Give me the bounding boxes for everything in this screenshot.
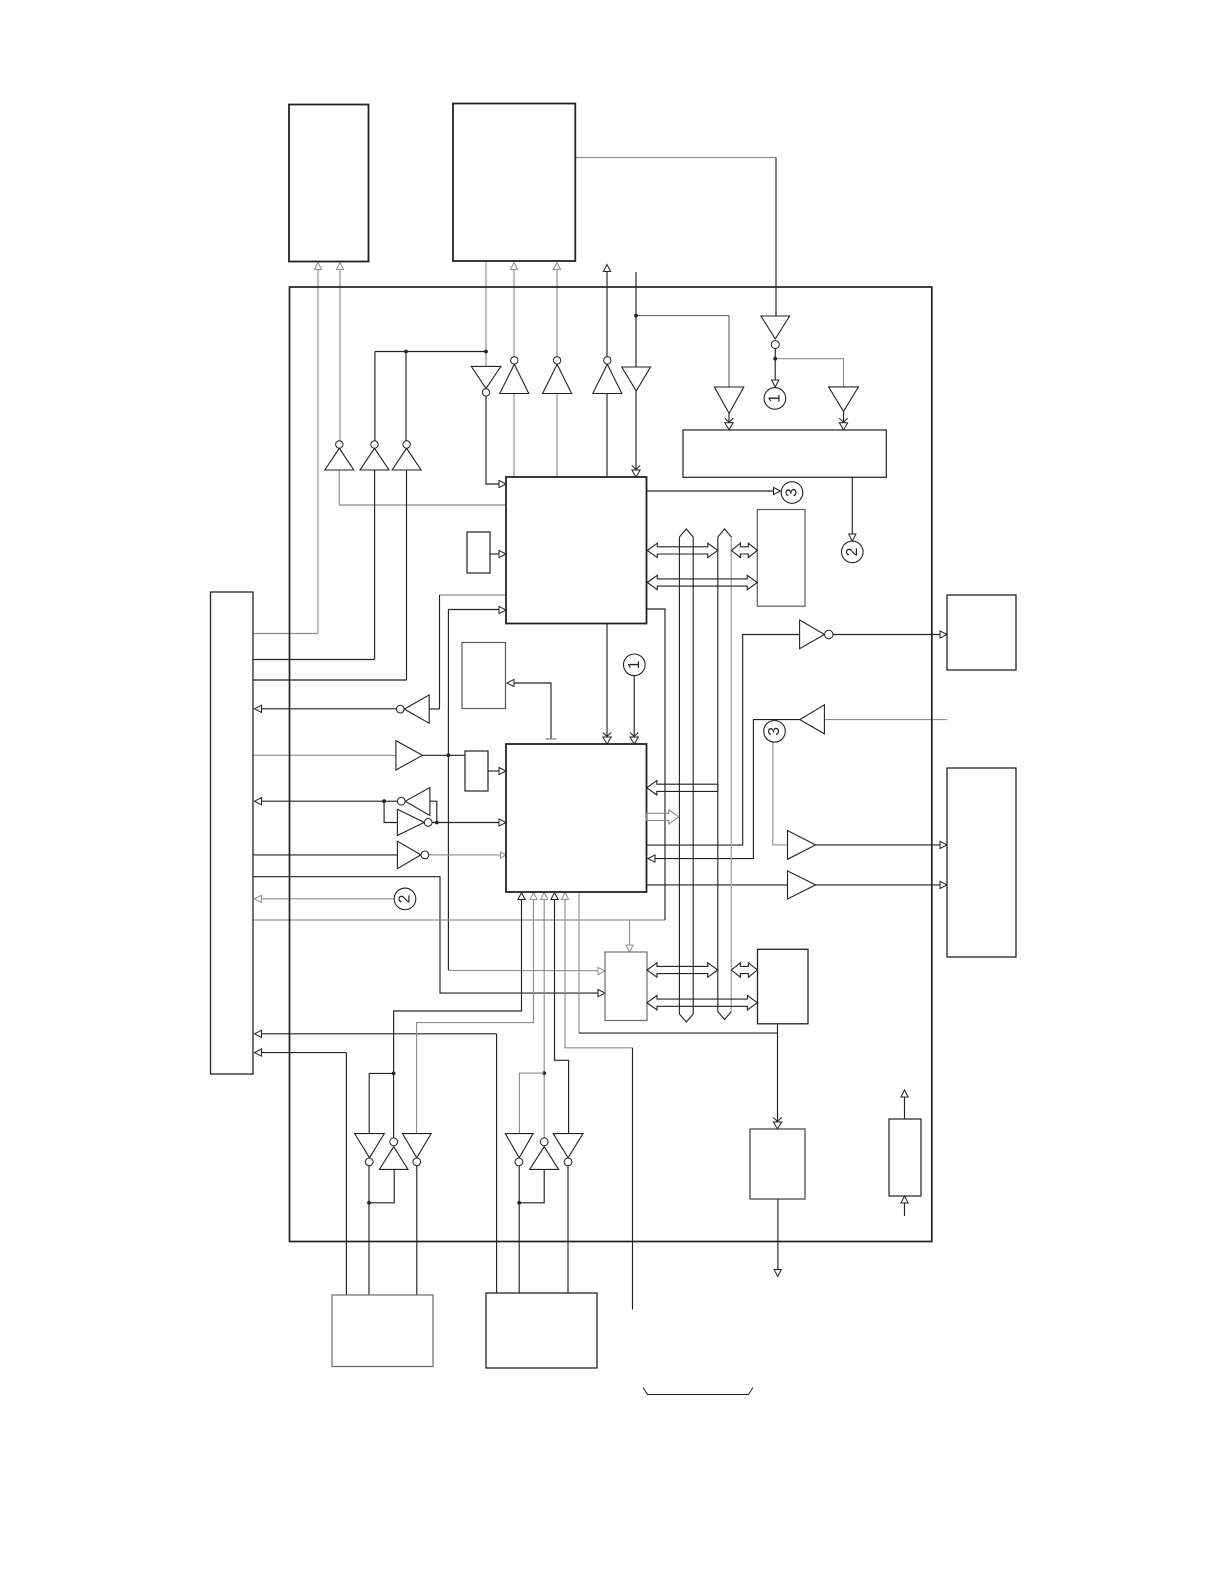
wire inverter U7 output to box1 pin [486,396,500,484]
svg-text:3: 3 [766,727,783,736]
wire box F bottom out of border [777,1199,779,1270]
wire net B to box D pin y971 [448,969,597,971]
T-bar terminal above box2 [546,738,557,740]
junction dot at 775/358 [773,357,777,361]
node ref circled 1 (top) [764,388,786,410]
node ref circled 1 (middle) [624,654,646,676]
triangle TL (pointing left) [800,705,825,734]
arrow up into box2 pin x565 [561,893,568,900]
wire inverter R2 output to box2 [429,854,501,856]
wire net y351 horizontal [375,351,486,353]
bus arrow H4 box D to V2 [647,963,718,977]
double arrow into box1 top [632,470,640,477]
wire inverter U3 output to box A pin2 [339,269,341,441]
bus arrow H5 box D to box E [647,996,757,1010]
arrow into box D pin y993 [598,990,605,997]
node ref circled 3 (top) [781,482,803,504]
box L (right outside) [947,768,1016,957]
inverter R1 (pointing right) [397,809,424,835]
wire node 636 junction to triangle U12 input [636,315,729,317]
arrow into box A pin2 [336,263,343,270]
arrow into box1 pin y554 [499,550,506,557]
wire long box output down [851,477,853,534]
wire box1 to inverter U10 [606,394,608,478]
wire down to inverter U6 input [775,158,777,317]
wire junction to triangle U13 input [775,359,843,387]
wire box1 to inverter U8 [513,394,515,478]
double arrow into box F top [773,1122,781,1129]
bus arrow H6 V2 to box E [731,963,757,977]
box C [757,510,805,607]
junction dot at 544/1073 [542,1071,546,1075]
junction dot at 448/755 [447,753,451,757]
arrow up into box2 pin x554 [551,893,558,900]
wire vertical net B x448 [447,610,449,971]
inverter U8 (bubble top) [500,364,529,393]
wire triangle TL apex to box2 pin y858 [654,720,800,859]
wire circled 1b to box2 top [633,676,635,737]
wire y351 down to inverter U4 bubble [374,352,376,441]
triangle U13 (pointing down) [829,387,859,412]
svg-text:2: 2 [397,895,414,904]
bus arrow H3 box1 to box C [647,575,757,589]
wire box1 pin y609 to net x665 [647,609,665,920]
box D [605,952,647,1021]
wire net B to box1 pin y610 [448,609,499,611]
arrow into connector row1034 [255,1030,262,1037]
double arrow into long box right pin [839,423,847,430]
wire box1 to inverter U9 [556,394,558,478]
wire drop to box D top [629,920,631,946]
wire row1034 to box J [261,1033,497,1035]
arrow into box K pin [940,631,947,638]
junction dot at 384/801 [382,799,386,803]
buffer A (to box L pin1) [788,831,816,860]
arrow into box D top [626,945,633,952]
wire box2 pin x533 to inverter Gc input [417,899,534,1134]
arrow into box B pin2 [553,263,560,270]
wire inverter Gf output to box J [567,1166,569,1293]
wire open net x632 down past border [632,1048,634,1310]
wire node at x636 down to triangle U11 [635,272,637,367]
wire buffer A output to box L pin1 [816,844,940,846]
inverter U9 (bubble top) [543,364,572,393]
cable bracket at bottom [643,1388,753,1395]
wire inverter Gd output to box J [518,1166,520,1293]
wire branch to inverter Ga input [369,1073,393,1133]
arrow up into box2 pin x521 [518,893,525,900]
node ref circled 2 (top) [842,541,864,563]
arrow into box M right edge [507,679,514,686]
arrow into box1 pin y610 [499,606,506,613]
svg-text:2: 2 [844,548,861,557]
wire inverter L1 output to connector [261,708,396,710]
bus arrow B2 box2 to V1 [647,810,679,824]
inverter K (to box K) [800,620,825,649]
arrow into box A pin1 [314,263,321,270]
wire small box S2 to box2 pin y771 [488,770,500,772]
inverter Gc (pointing down) [403,1134,432,1158]
wire small box S1 to box1 [490,553,500,555]
wire box2 pin x554 to inverter Gf input [555,899,569,1134]
junction dot at 519/1202 [517,1201,521,1205]
arrow into box2 right pin y858 [648,855,655,862]
inverter Gd (pointing down) [505,1134,533,1158]
triangle U11 (pointing down) [622,367,651,391]
arrow into connector row708 [255,705,262,712]
node ref circled 2 (left) [394,888,416,910]
arrow into circled 2 [849,534,856,541]
bus arrow B1 into box2 right [647,781,718,795]
wire branch to inverter Gd input [519,1073,544,1134]
arrow into box D pin y971 [598,967,605,974]
wire junction to inverter R1 input [384,801,397,822]
buffer Bf (to box L pin2) [788,871,816,899]
wire box1 bottom to box2 top [606,624,608,737]
wire buffer Bf output to box L pin2 [816,884,940,886]
inverter Ga (pointing down) [355,1134,385,1158]
wire row877 to box D pin y993 [253,877,598,993]
inverter Gb (bubble top, up) [379,1147,408,1170]
arrow into box2 pin y771 [499,767,506,774]
double arrow into box2 top pin2 [630,737,638,744]
wire inverter K output to box K [833,634,940,636]
inverter U10 (bubble top) [593,364,622,393]
wire row898 to circled 2b [261,898,394,900]
wire inverter U10 output up [606,272,608,357]
small arrow into box2 pin y855 [501,852,507,858]
wire box2 pin x579 to box F [578,892,580,1033]
vertical bus V2 [718,529,732,1020]
wire circled 3b down to buffer A input [773,743,788,845]
box I (bottom left) [332,1295,433,1367]
node ref circled 3 (middle) [764,721,786,743]
inverter R2 (pointing right) [397,841,421,869]
wire row920 connector to net x665 [253,919,665,921]
inverter U5 (bubble top) [392,448,421,470]
box2 (lower large block) [506,744,647,892]
wire box2 pin x565 to open net x632 [565,899,633,1048]
wire row855 to inverter R2 input [253,854,397,856]
bus arrow H2 V2 to box C [731,543,757,557]
arrow into box L pin1 [940,841,947,848]
junction dot at 393/1073 [392,1072,396,1076]
triangle U12 (pointing down) [714,387,743,413]
wire row659 to inverter U4 input [253,659,375,661]
inverter U7 (pointing down) [471,366,501,388]
wire row755 to buffer B1 input [253,754,396,756]
wire box1 pin y595 to inverter L1 base [440,594,507,596]
box B (top) [453,104,575,262]
box E [758,949,809,1024]
wire inverter U8 output to box B [513,269,515,357]
wire inverter Ga output to box I [368,1166,370,1295]
svg-text:3: 3 [784,488,801,497]
wire row1052 to box I [261,1052,346,1054]
arrow into box L pin2 [940,881,947,888]
arrow into connector row1052 [255,1049,262,1056]
inverter Ge (bubble top, up) [530,1147,559,1170]
wire U12 apex to long box [728,413,730,422]
wire triangle U11 apex to box1 top [635,391,637,470]
box G [889,1119,921,1196]
small box S2 [465,751,488,791]
junction dot at 436/822 [435,821,439,825]
wire box2 pin x521 to group1 net [394,899,522,1138]
wire box G top up [904,1097,906,1119]
wire box1 to circled 3 [647,490,774,492]
wire inverter L2 output to connector [261,800,397,802]
wire inverter R1 output to box2 [432,822,500,824]
wire triangle TL base to right (open net) [824,719,947,721]
double arrow into long box left pin [725,423,733,430]
wire bus-left to box A pin1 (net LA1) [253,633,318,635]
small box S1 [467,532,490,573]
inverter Gf (pointing down) [553,1134,583,1158]
wire inverter Gc output to box I [416,1166,418,1295]
arrow into box B pin1 [510,263,517,270]
wire branch to inverter Gb input [369,1169,394,1202]
wire U13 apex to long box [843,412,845,423]
wire inverter U3 input from box1 [339,470,506,505]
svg-text:1: 1 [626,660,643,669]
box1 (upper large block) [506,477,647,624]
arrow into connector row801 [255,798,262,805]
arrow up at top of U10 net [603,265,610,272]
wire box B right to inverter U6 (horiz) [575,157,776,159]
wire inverter U9 output to box B [556,269,558,357]
wire T-bar terminal to box M [514,683,552,739]
box A (top left) [289,105,369,262]
long box (top right block) [683,430,886,477]
svg-text:1: 1 [766,394,783,403]
wire junction down to ref 1 [774,359,776,380]
inverter L1 (pointing left) [404,695,429,723]
wire U6 bubble to junction [774,348,776,358]
wire row680 to inverter U5 input [253,679,407,681]
inverter U4 (bubble top) [360,448,389,470]
arrow up above box G [901,1090,908,1097]
wire box E bottom stub [777,1024,779,1033]
wire branch to inverter Ge input [519,1169,544,1202]
bus arrow H1 box1 to V2 [647,543,718,557]
box J (bottom right) [486,1293,597,1368]
wire below box G [904,1203,906,1216]
arrow into box1 pin y484 [499,480,506,487]
wire y351 down to inverter U5 bubble [405,352,407,441]
junction dot at 369/1202 [367,1201,371,1205]
wire box B pin to inverter U7 input [485,261,487,366]
junction dot at 406/351 [404,350,408,354]
inverter U6 (pointing down) [761,316,790,339]
arrow up into box2 pin x544 [541,893,548,900]
arrow into circled 3 [774,487,781,494]
wire box2 pin y885 to buffer Bf input [647,884,788,886]
arrow into connector row898 [255,895,262,902]
arrow up into box G bottom [901,1196,908,1203]
outer IC boundary [290,287,932,1242]
wire box2 pin x544 to group2 net [543,899,545,1138]
arrow into circled 1 [772,380,779,387]
inverter U3 (bubble top) [325,448,354,470]
box F [750,1129,805,1199]
arrow up into box2 pin x533 [530,893,537,900]
arrow into box2 pin y822 [499,819,506,826]
wire box2 pin y845 to inverter K input [647,635,800,846]
wire buffer B1 output to small box S2 [422,754,465,756]
tall connector box (left) [211,592,254,1074]
wire inverter L2 input from net [430,801,437,822]
arrow down below border [774,1270,781,1277]
double arrow into box2 top pin1 [603,737,611,744]
vertical bus V1 [679,529,693,1022]
inverter L2 (pointing left) [405,788,430,816]
junction dot at 636/315 [634,314,638,318]
buffer B1 (pointing right) [396,741,423,770]
box M [462,643,506,709]
junction dot at 486/351 [484,350,488,354]
box K (right outside) [947,595,1016,670]
